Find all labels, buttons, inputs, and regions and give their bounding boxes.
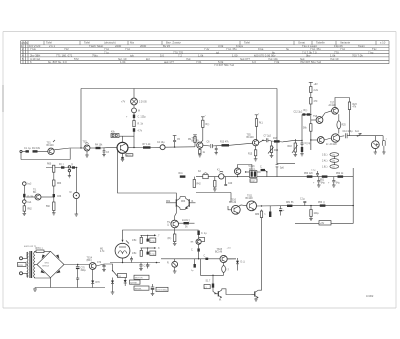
wire pair joins — [180, 196, 186, 198]
svg-text:(5): (5) — [333, 155, 336, 157]
capacitor C10 — [126, 115, 146, 119]
transistor TS13 — [33, 190, 41, 201]
svg-text:572: 572 — [74, 57, 79, 61]
wire TS5 collector out — [259, 140, 266, 142]
svg-text:+9V: +9V — [320, 223, 325, 225]
svg-text:BC149: BC149 — [192, 141, 200, 143]
wire TS17 loop — [199, 237, 205, 241]
svg-text:BY164: BY164 — [43, 266, 50, 268]
wire box to lamp column — [119, 135, 134, 137]
capacitor C89 — [311, 170, 319, 177]
capacitor C5 hang up — [173, 136, 181, 148]
svg-text:R80: R80 — [255, 214, 260, 216]
din socket oval 2 — [322, 159, 339, 163]
transistor pair TSA — [166, 197, 180, 210]
wire x310 down — [310, 104, 312, 150]
resistor R80 — [255, 210, 263, 218]
svg-text:hu: hu — [286, 47, 290, 51]
capacitor C85 — [197, 231, 207, 236]
din socket oval 3 — [322, 165, 339, 169]
wire lamp col to signal — [133, 132, 135, 148]
svg-text:R62: R62 — [166, 201, 171, 203]
resistor R21 — [310, 98, 318, 105]
node J18 — [266, 171, 267, 172]
svg-text:R63: R63 — [57, 183, 62, 185]
svg-text:700 7.0k: 700 7.0k — [352, 54, 363, 58]
svg-text:(deutsch): (deutsch) — [104, 41, 116, 45]
svg-text:3.5(.): 3.5(.) — [322, 155, 328, 157]
wire TS2 emitter — [86, 151, 88, 155]
transistor TS7 — [329, 103, 339, 115]
capacitor C14 output — [343, 131, 354, 139]
resistor R40 — [132, 235, 143, 243]
capacitor C20 — [224, 177, 233, 186]
wire TS2 to R4 — [90, 147, 96, 149]
node J5b — [301, 140, 302, 141]
wire below motor sw — [75, 199, 77, 214]
parts table text — [21, 41, 386, 67]
wire bottom mid bus — [201, 259, 224, 276]
node J15 — [198, 258, 199, 259]
wire R4 to TS3 — [101, 147, 118, 149]
svg-text:C.1µ: C.1µ — [300, 199, 306, 201]
resistor R31 — [260, 167, 265, 172]
filter resistor R52 — [336, 173, 344, 178]
svg-text:R(.) C.: R(.) C. — [249, 169, 256, 171]
svg-text:C7 2µ2: C7 2µ2 — [264, 136, 272, 138]
ground jack — [68, 176, 71, 178]
capacitor C1 — [24, 148, 31, 153]
capacitor C6b to ground — [215, 146, 218, 155]
wire TS5 emitter chain — [248, 146, 257, 161]
svg-text:220V: 220V — [18, 265, 23, 267]
regulator circle TG1 — [167, 261, 178, 267]
svg-text:1.00: 1.00 — [232, 54, 238, 58]
svg-text:S1.7: S1.7 — [206, 281, 211, 283]
wire TS8-TS9 — [324, 138, 331, 140]
supply tick R8 column — [201, 115, 207, 120]
svg-text:z.10: z.10 — [380, 41, 386, 45]
resistor R62 — [23, 203, 32, 211]
svg-text:5.0: 5.0 — [160, 54, 164, 58]
svg-text:(.): (.) — [71, 164, 73, 166]
osc label box below — [250, 179, 257, 183]
wire motor bottom — [122, 258, 124, 262]
svg-text:R60: R60 — [47, 164, 52, 166]
svg-text:R(.): R(.) — [259, 123, 263, 125]
node J13 — [156, 262, 158, 264]
filter cap C50a — [313, 177, 325, 188]
left column connector — [23, 182, 33, 186]
parts table frame — [21, 41, 390, 64]
wire drop below C21 — [276, 167, 278, 177]
wire TS6 to TS7 — [322, 111, 332, 118]
wire motor top arrow — [126, 241, 129, 244]
svg-text:7.0 607 50k 7u2: 7.0 607 50k 7u2 — [214, 63, 235, 67]
transistor TS11 — [246, 196, 257, 211]
ground reg — [173, 271, 177, 273]
meter M1 — [132, 108, 140, 113]
ground TS18 — [254, 298, 258, 302]
svg-text:D.(.): D.(.) — [241, 262, 246, 264]
svg-text:R7 1.2k: R7 1.2k — [143, 144, 152, 146]
wire reg stem — [174, 259, 176, 262]
svg-text:R.: R. — [167, 263, 170, 265]
svg-text:(BD.): (BD.) — [87, 260, 93, 262]
capacitor C13 — [301, 140, 312, 145]
svg-text:2 k 1: 2 k 1 — [49, 44, 56, 48]
resistor block R61 — [71, 164, 75, 169]
svg-text:320µ: 320µ — [81, 270, 87, 272]
wire C6 to R13 — [212, 144, 221, 147]
wire left col top rail — [46, 167, 78, 169]
parts table header dividers — [44, 41, 376, 45]
transformer T1 core — [30, 251, 32, 278]
capacitor C7 — [264, 136, 272, 143]
svg-text:Tafel: Tafel — [244, 41, 250, 45]
ground TS2 — [85, 155, 89, 157]
wire supply top rail — [81, 88, 277, 90]
transistor TS12 — [167, 220, 179, 228]
svg-text:64µ: 64µ — [321, 183, 326, 185]
svg-text:BC.: BC. — [33, 192, 37, 194]
resistor R64 — [46, 197, 55, 211]
resistor R70 fuse — [36, 248, 45, 253]
svg-text:C.1µ: C.1µ — [150, 253, 155, 255]
wire feedback vertical — [69, 148, 71, 159]
capacitor C87 — [191, 244, 200, 258]
capacitor C83 — [264, 206, 271, 217]
switch S1 — [112, 270, 127, 278]
wire to TS1 — [38, 151, 48, 153]
resistor R54 vertical — [309, 206, 319, 221]
C50 label box — [156, 287, 168, 291]
svg-text:D70: D70 — [96, 282, 101, 284]
svg-text:7 lu: 7 lu — [104, 50, 109, 54]
capacitor C88 on rail — [204, 255, 209, 260]
node J17 — [245, 171, 246, 172]
wire lamp to meter — [133, 105, 135, 108]
capacitor C73 — [130, 257, 133, 263]
wire osc top — [238, 165, 252, 171]
wire TS13 — [41, 196, 54, 198]
transistor TS10 circle — [234, 168, 240, 177]
capacitor C82 — [204, 284, 214, 289]
wire TS3 collector — [122, 136, 124, 142]
resistor R81 — [286, 202, 294, 207]
wire TS13 base left — [26, 196, 35, 198]
svg-text:R18: R18 — [288, 146, 293, 148]
wire TS15 diode link — [227, 258, 236, 260]
diode D72 — [124, 278, 127, 287]
connector circle 2 — [23, 197, 33, 204]
wire switch down — [112, 278, 114, 281]
transistor TS14 — [87, 258, 97, 270]
ground R64 — [52, 211, 56, 216]
node J5 — [310, 114, 311, 115]
svg-text:2xAC(.): 2xAC(.) — [182, 219, 190, 222]
transistor TS6 — [313, 116, 323, 123]
wire secondary top — [35, 250, 51, 253]
transistor TS15 — [215, 248, 231, 263]
svg-text:C.: C. — [204, 255, 207, 257]
lamp LA1 — [121, 98, 147, 105]
svg-text:C.: C. — [260, 167, 263, 169]
svg-text:R1 6.8k: R1 6.8k — [32, 148, 41, 150]
ground zener — [111, 292, 115, 294]
svg-text:(.): (.) — [205, 287, 207, 289]
svg-text:C. 125µ: C. 125µ — [138, 117, 147, 119]
svg-text:BC149: BC149 — [47, 145, 55, 147]
svg-text:BC(.): BC(.) — [126, 155, 131, 157]
svg-text:C20: C20 — [228, 183, 233, 185]
capacitor C12 series resistor — [294, 110, 311, 116]
potentiometer R18 volume — [288, 139, 298, 157]
bias rail hanger R41 — [179, 173, 186, 178]
transistor TS17 — [191, 239, 202, 244]
wire right vertical — [295, 168, 353, 223]
resistor R11 — [133, 128, 143, 132]
resistor R53 — [318, 202, 325, 207]
svg-text:7.01: 7.01 — [196, 60, 202, 64]
svg-text:R50 120: R50 120 — [304, 173, 313, 175]
earphone jack — [383, 136, 388, 146]
lamp oval under TS15 — [222, 263, 229, 276]
svg-text:771 160. 071: 771 160. 071 — [56, 54, 73, 58]
wire mains — [23, 252, 28, 258]
svg-text:+7V: +7V — [121, 102, 126, 104]
wire S17 branch — [212, 275, 214, 283]
node J9 — [76, 167, 77, 168]
wire lamp branch — [133, 89, 135, 99]
wire bridge out — [64, 264, 89, 266]
resistor R23 — [348, 98, 357, 110]
node J4 — [262, 140, 263, 141]
svg-text:1.6(.): 1.6(.) — [322, 167, 328, 169]
head block box — [111, 132, 119, 138]
svg-text:7Wu: 7Wu — [92, 54, 98, 58]
page edge bottom — [3, 307, 396, 309]
oscillator feed line — [246, 171, 261, 173]
svg-text:R51: R51 — [320, 180, 325, 182]
capacitor C71 — [76, 278, 79, 288]
transistor TS4 — [192, 138, 203, 148]
node J6 — [310, 139, 311, 140]
svg-text:C50 1000µ: C50 1000µ — [157, 290, 168, 292]
wire right riser — [258, 218, 261, 291]
svg-text:0kv: 0kv — [306, 54, 311, 58]
wire to TS12 — [175, 207, 177, 221]
page edge left dark segment — [2, 85, 4, 112]
svg-text:7 kc. Plu: 7 kc. Plu — [226, 47, 237, 51]
svg-text:bu. 807 6u. 0.0: bu. 807 6u. 0.0 — [48, 60, 67, 64]
mains terminal 2 — [20, 272, 23, 275]
wire C14 to speaker line — [347, 135, 383, 137]
resistor R17 — [273, 138, 280, 143]
svg-text:(1): (1) — [333, 167, 336, 169]
svg-text:1.0k: 1.0k — [198, 54, 204, 58]
wire left bias drop — [118, 150, 177, 199]
wire TS4 emitter — [199, 148, 201, 149]
wire C82 down — [213, 288, 217, 294]
ground R37 — [173, 242, 177, 246]
svg-text:M: M — [138, 111, 140, 113]
capacitor C40 — [147, 235, 156, 242]
svg-text:BC149: BC149 — [229, 202, 237, 204]
page edge right — [395, 32, 397, 309]
oscillator transformer S10 — [249, 166, 257, 178]
arrow motor feed — [122, 240, 124, 242]
speaker LS — [371, 136, 379, 149]
wire input ground stub — [20, 153, 22, 160]
transistor TS8 — [317, 137, 324, 144]
ground rail bottom — [35, 287, 105, 289]
svg-text:7 kc: 7 kc — [125, 47, 131, 51]
bridge rectifier GR1 — [37, 251, 64, 277]
bias rail hanger R42 — [193, 177, 201, 188]
svg-text:712: 712 — [64, 47, 69, 51]
svg-text:64µ: 64µ — [336, 183, 341, 185]
wire osc mid horizontal — [196, 192, 231, 194]
svg-text:C12 2µ2: C12 2µ2 — [294, 111, 303, 113]
wire TS14 down — [92, 269, 94, 280]
mains terminal 1 — [20, 257, 23, 260]
wire pair bottom — [180, 208, 186, 210]
right filter rail components R50 — [304, 173, 313, 178]
wire C4 on — [165, 146, 195, 148]
transistor pair TSB — [181, 197, 196, 210]
svg-text:auk 177: auk 177 — [164, 60, 174, 64]
svg-text:BC149: BC149 — [247, 137, 255, 139]
wire supply to switch — [104, 264, 113, 271]
resistor R44 — [132, 248, 143, 256]
wire lower dist rail — [110, 262, 160, 264]
wire bridge bottom down — [50, 278, 52, 288]
ground motor sw — [75, 214, 79, 216]
electrolytic C70 — [76, 265, 86, 279]
svg-text:R62: R62 — [28, 209, 33, 211]
resistor R30 — [213, 177, 217, 192]
svg-text:R70 (.): R70 (.) — [36, 248, 43, 250]
capacitor C72 — [97, 262, 106, 272]
svg-text:R4 10k: R4 10k — [95, 145, 103, 147]
wire volume feed — [283, 140, 302, 141]
+9V label box — [319, 221, 331, 225]
ground left column — [23, 211, 27, 215]
svg-text:AC128: AC128 — [330, 143, 338, 146]
svg-text:R81 56: R81 56 — [286, 202, 294, 204]
capacitor C6 — [207, 142, 213, 149]
zener D71 — [111, 281, 114, 293]
wire TS3 out — [128, 147, 143, 149]
wire osc mid vertical — [230, 193, 232, 203]
svg-text:tuk: tuk — [130, 54, 134, 58]
transformer T1 secondary — [34, 252, 35, 278]
label box reg — [134, 286, 149, 290]
wire R7 to C4 — [151, 146, 161, 148]
ground C50 — [151, 294, 155, 296]
wire C7 on — [268, 140, 283, 142]
page edge top — [3, 31, 396, 33]
wire C85 to TS17 — [198, 235, 200, 237]
resistor R19 — [301, 144, 303, 152]
ground TS3 — [121, 153, 124, 161]
svg-text:kpl: kpl — [146, 57, 150, 61]
capacitor C3 after R4 — [102, 148, 109, 157]
transistor TS9 — [326, 134, 340, 146]
ground earphone — [382, 146, 385, 154]
capacitor C75 — [146, 263, 149, 269]
wire mid bottom rail — [161, 258, 236, 260]
motor M1 — [100, 243, 130, 258]
label box motor — [134, 275, 149, 279]
node J3 — [174, 146, 175, 147]
svg-text:2.4(.): 2.4(.) — [322, 161, 328, 163]
wire feedback bottom — [21, 159, 70, 161]
resistor R7 — [143, 144, 152, 149]
resistor R10 — [133, 121, 144, 127]
transistor TS2 — [83, 142, 91, 151]
svg-text:R. 1k: R. 1k — [138, 124, 144, 126]
potentiometer R16 — [268, 141, 279, 158]
wire din — [333, 156, 335, 158]
svg-text:R52 1k: R52 1k — [336, 173, 344, 175]
svg-text:C. 1µ: C. 1µ — [201, 233, 207, 235]
svg-text:R53 (.): R53 (.) — [318, 202, 325, 204]
svg-text:7 dv: 7 dv — [204, 47, 210, 51]
svg-text:C(.)1µ: C(.)1µ — [305, 143, 312, 145]
wire R13 to TS5 — [229, 143, 253, 145]
wire — [310, 131, 312, 150]
capacitor C21 on drop — [276, 164, 285, 169]
svg-text:3.0k: 3.0k — [218, 44, 224, 48]
node J8 — [310, 205, 311, 206]
svg-text:R(.): R(.) — [206, 124, 210, 126]
svg-text:huk 077: huk 077 — [240, 57, 250, 61]
svg-text:R63: R63 — [181, 201, 186, 203]
ground R19 — [300, 152, 304, 156]
wire C12 tap — [301, 115, 303, 141]
wire R8 to TS4 — [201, 127, 203, 142]
wire din2 — [333, 162, 335, 164]
transistor TS1 BC149 — [47, 140, 56, 155]
svg-text:702 607 50u 7u2: 702 607 50u 7u2 — [300, 60, 321, 64]
svg-text:7.2: 7.2 — [178, 54, 182, 58]
node J12 — [122, 262, 123, 263]
resistor R24 — [303, 124, 312, 132]
wire R14 to TS5 — [256, 126, 258, 139]
svg-text:R16: R16 — [274, 150, 279, 152]
svg-text:REGEL: REGEL — [135, 288, 143, 290]
electrolytic C84 — [279, 206, 285, 216]
wire deck line — [123, 230, 199, 240]
svg-text:BC148: BC148 — [246, 198, 254, 200]
input terminal — [20, 150, 22, 152]
wire TS9 out — [340, 135, 345, 138]
wire top entry +9V — [309, 82, 318, 87]
svg-text:Tabelle: Tabelle — [316, 41, 325, 45]
wire vertical drop left — [80, 89, 82, 149]
resistor R4 — [95, 145, 103, 150]
svg-text:C4 10µ: C4 10µ — [157, 142, 165, 144]
svg-text:R25: R25 — [342, 125, 347, 127]
wire secondary mid tap — [35, 264, 37, 266]
wire TS4 to C6 — [203, 144, 210, 147]
svg-text:Tlach Tekst: Tlach Tekst — [89, 44, 103, 48]
svg-text:R13 47k: R13 47k — [220, 142, 229, 144]
svg-text:2000: 2000 — [140, 44, 147, 48]
svg-text:R(.): R(.) — [304, 110, 308, 112]
